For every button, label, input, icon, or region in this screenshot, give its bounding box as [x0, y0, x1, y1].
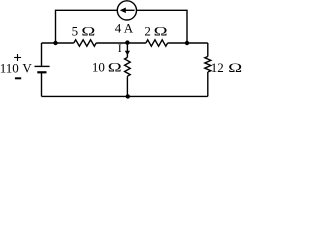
wire: right branch top lead	[207, 43, 209, 57]
svg-text:V: V	[22, 61, 32, 76]
node C junction dot right top	[185, 41, 189, 45]
node D junction dot bottom	[126, 94, 130, 98]
svg-text:Ω: Ω	[81, 25, 95, 39]
svg-text:Ω: Ω	[154, 25, 168, 39]
wire: bottom rail	[42, 95, 208, 97]
resistor R3 10 ohm	[125, 57, 131, 76]
voltage source V1 110 V battery	[35, 66, 50, 72]
wire: battery negative to bottom rail	[41, 73, 43, 97]
wire: top bypass right segment and right vertical drop	[136, 10, 187, 43]
svg-text:Ω: Ω	[108, 61, 122, 75]
current source U1 4 A	[117, 1, 136, 20]
resistor R2 2 ohm	[146, 40, 168, 46]
wire: left branch from top rail down to battery	[41, 43, 43, 66]
resistor R1 5 ohm	[74, 40, 96, 46]
svg-text:10: 10	[92, 60, 105, 75]
label minus polarity	[15, 77, 21, 79]
resistor R4 12 ohm	[205, 57, 211, 72]
node A junction dot left (top of source branch)	[53, 41, 57, 45]
svg-text:110: 110	[0, 61, 19, 76]
current arrow I	[125, 51, 130, 56]
svg-text:5: 5	[72, 23, 79, 38]
svg-text:12: 12	[211, 60, 224, 75]
node B junction dot middle top	[125, 40, 129, 44]
wire: middle branch bottom lead	[126, 76, 128, 96]
label plus polarity	[14, 54, 21, 61]
svg-text:4 A: 4 A	[115, 21, 134, 36]
svg-text:I: I	[118, 41, 122, 55]
svg-text:2: 2	[144, 23, 151, 38]
wire: middle branch top lead	[126, 43, 128, 57]
wire: main top rail	[42, 42, 208, 44]
wire: top bypass left segment and left vertical drop	[56, 10, 118, 43]
wire: right branch bottom lead	[207, 72, 209, 96]
svg-text:Ω: Ω	[228, 62, 242, 76]
